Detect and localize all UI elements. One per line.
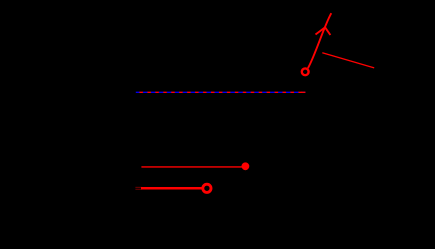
label leader line xyxy=(322,53,374,68)
dashed closed-position line (red dashes) xyxy=(136,91,306,93)
final red dash at right end of dashed line xyxy=(301,91,305,93)
switch pivot (open ring) xyxy=(302,68,309,75)
switch lever xyxy=(308,13,331,68)
dashed closed-position line (blue dashes) xyxy=(136,91,306,93)
wire to upper contact xyxy=(141,166,243,168)
upper contact (filled dot) xyxy=(242,162,250,170)
motion arrowhead (chevron) xyxy=(316,27,331,35)
wire to lower contact xyxy=(141,187,202,190)
dark lead-in wire lower strand xyxy=(135,188,141,190)
lower contact (open ring) xyxy=(203,184,211,192)
dark lead-in wire upper strand xyxy=(135,186,141,188)
